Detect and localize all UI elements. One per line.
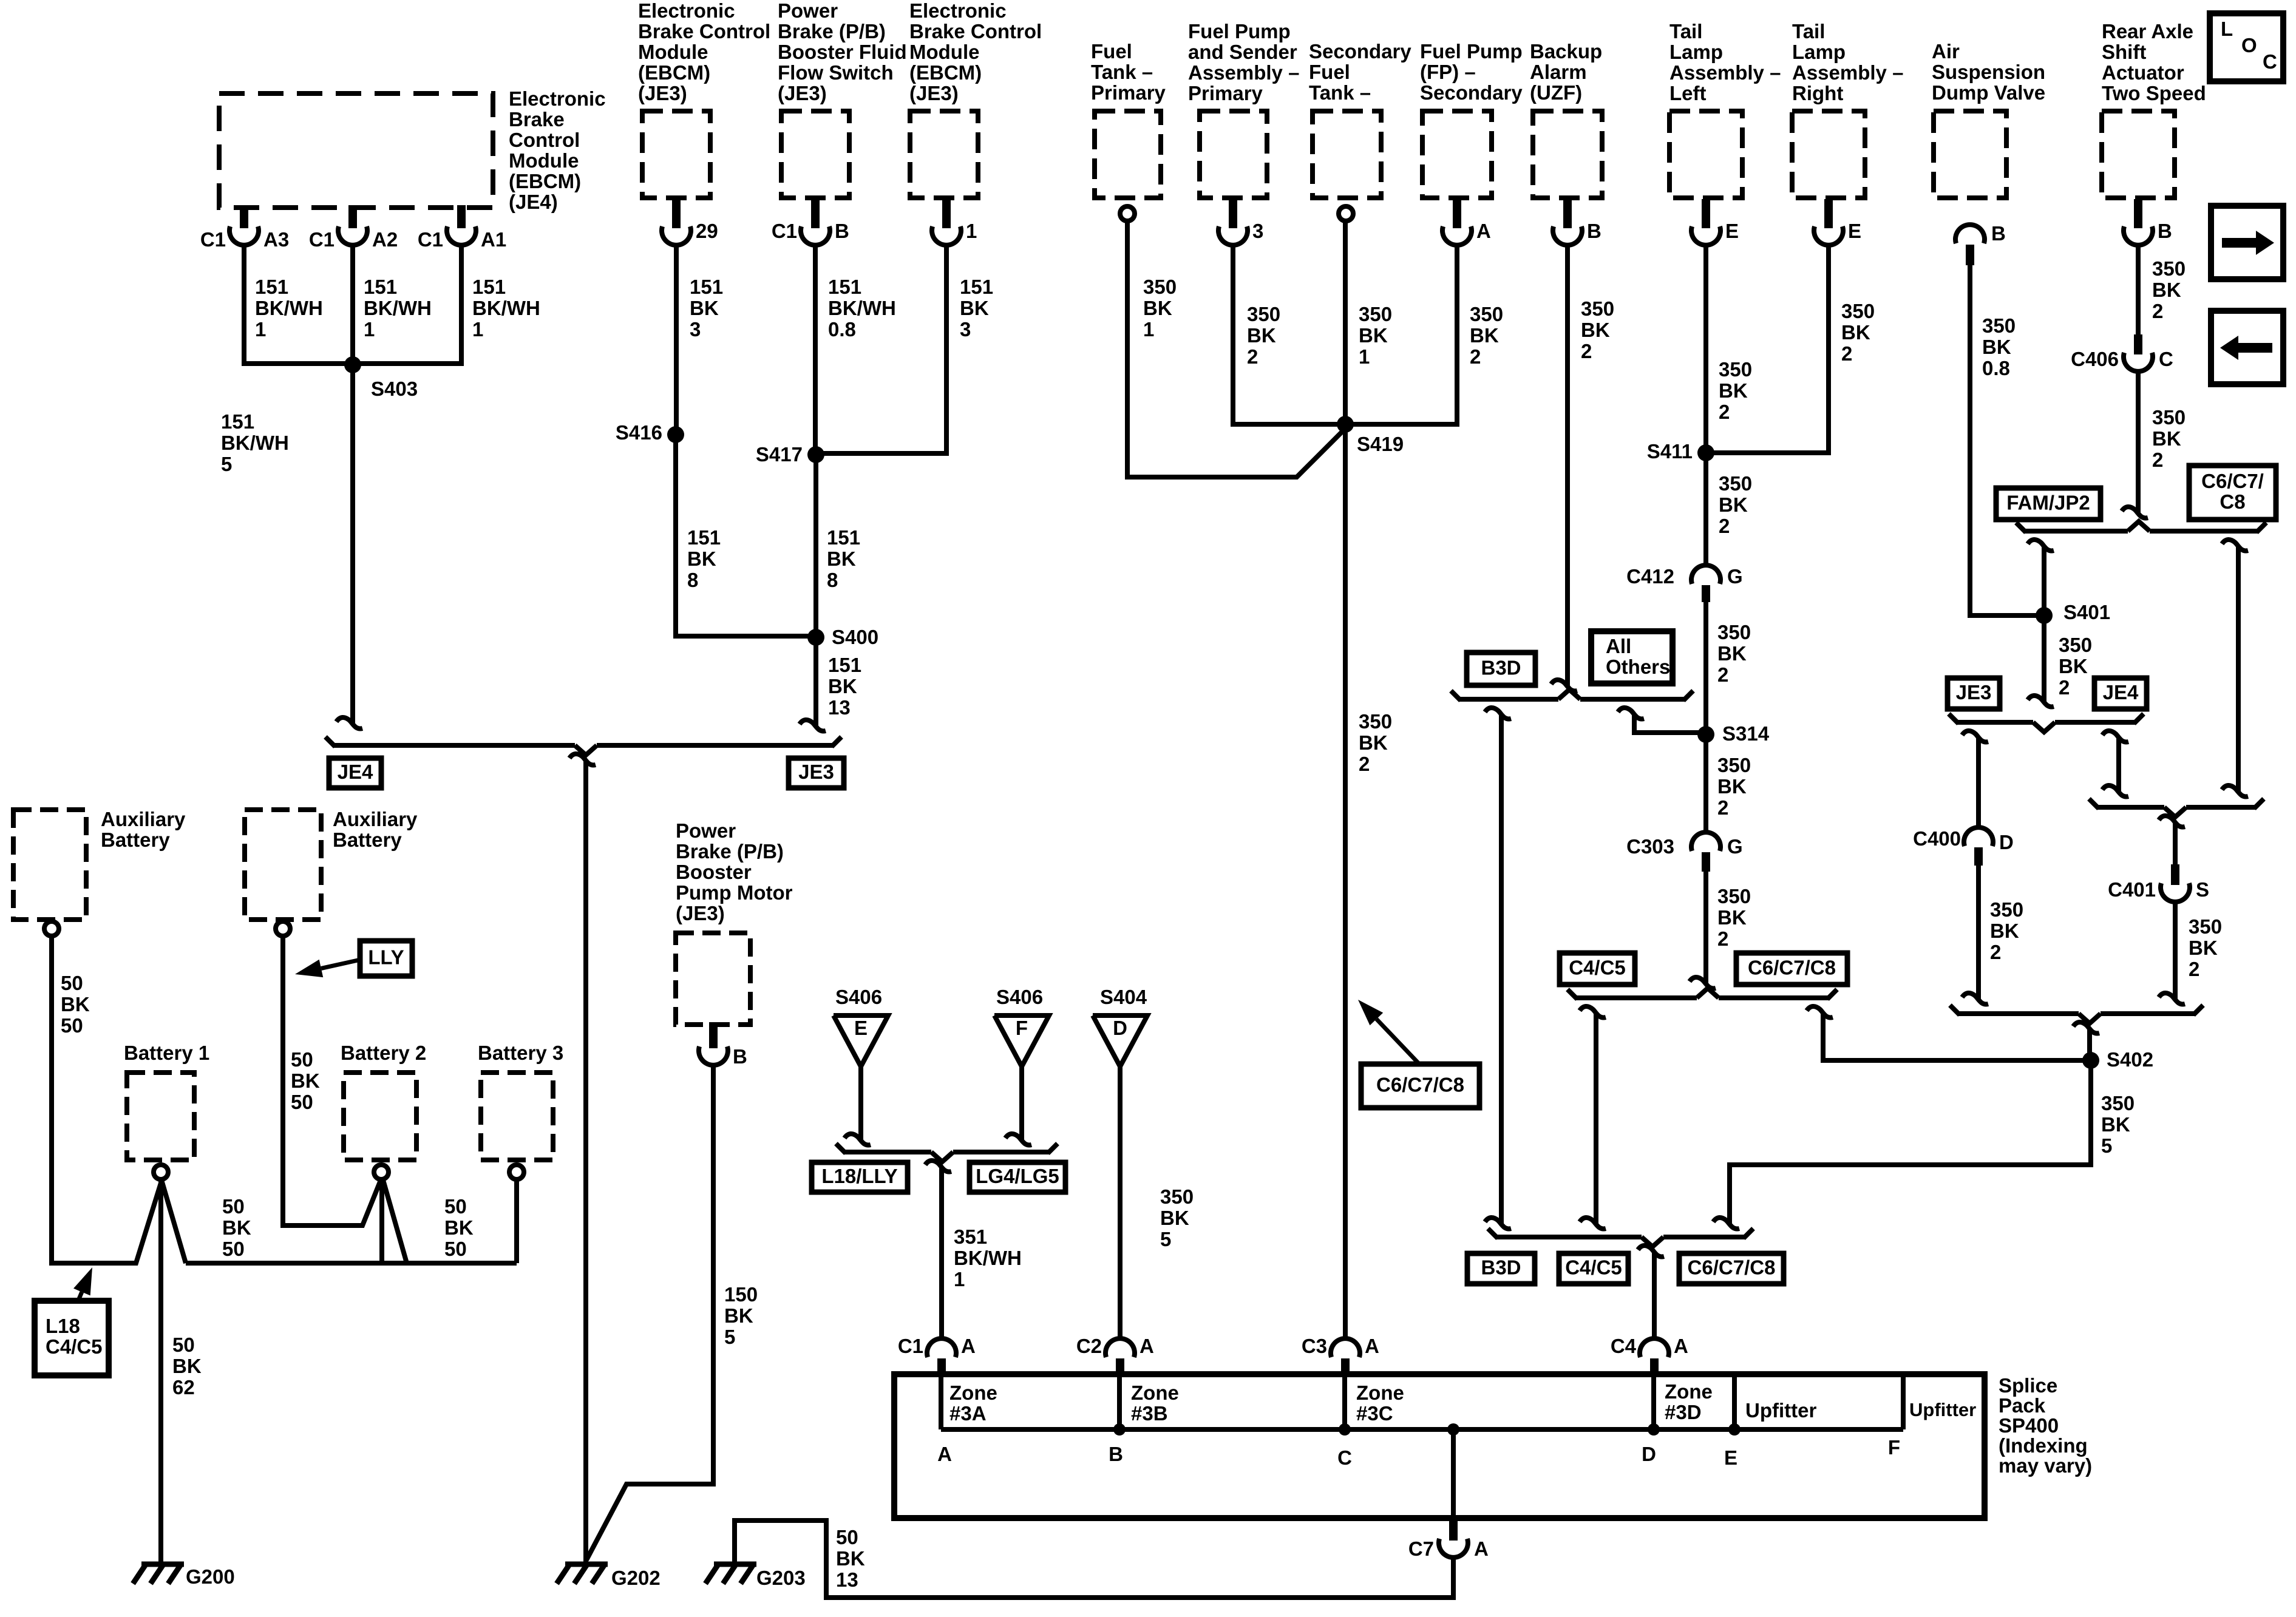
svg-text:L18/LLY: L18/LLY: [821, 1165, 897, 1187]
wire B3D bus to lower bus: [1485, 708, 1511, 719]
svg-text:350: 350: [1717, 754, 1751, 776]
wire S417 to S400: [813, 455, 818, 637]
svg-text:BK: BK: [1717, 775, 1747, 798]
svg-text:C: C: [2263, 50, 2277, 73]
svg-text:#3A: #3A: [949, 1402, 987, 1425]
svg-text:350: 350: [2189, 915, 2222, 938]
svg-text:350: 350: [1990, 898, 2023, 921]
C6/C7/C8 callout box: [1361, 1064, 1479, 1108]
svg-text:BK: BK: [724, 1304, 753, 1327]
svg-text:B: B: [1991, 222, 2006, 245]
wire C1/A1 to S403: [356, 244, 461, 364]
svg-text:BK: BK: [687, 547, 716, 570]
svg-text:350: 350: [1143, 276, 1177, 298]
Splice Pack SP400 outer box: [894, 1374, 1985, 1518]
svg-text:Brake (P/B): Brake (P/B): [778, 20, 886, 42]
wire Rear Axle to C406: [2136, 244, 2141, 334]
wire Battery 1 to G200: [158, 1180, 163, 1564]
svg-text:350: 350: [1470, 303, 1503, 325]
svg-text:BK: BK: [1359, 324, 1388, 347]
wire S402 to bottom bus: [1730, 1060, 2091, 1224]
svg-text:C: C: [1337, 1446, 1352, 1469]
svg-text:Air: Air: [1932, 40, 1960, 63]
svg-text:350: 350: [1359, 710, 1392, 733]
wire C303 to C4C5 bus: [1703, 872, 1708, 983]
svg-text:50: 50: [444, 1195, 467, 1218]
svg-text:350: 350: [1719, 358, 1752, 381]
Tail Lamp Assembly Left box: [1669, 111, 1742, 198]
svg-text:(EBCM): (EBCM): [638, 61, 710, 84]
splice S416: [667, 426, 684, 443]
svg-text:(JE3): (JE3): [778, 82, 827, 104]
svg-text:5: 5: [1160, 1228, 1171, 1250]
svg-text:29: 29: [696, 220, 718, 242]
svg-text:Assembly –: Assembly –: [1188, 61, 1299, 84]
Battery 3 box: [481, 1073, 553, 1160]
svg-text:may vary): may vary): [1999, 1454, 2092, 1477]
svg-text:62: 62: [172, 1376, 195, 1398]
svg-text:BK: BK: [836, 1547, 865, 1570]
svg-text:Left: Left: [1669, 82, 1707, 104]
svg-text:Secondary: Secondary: [1309, 40, 1411, 63]
wire C1/A2 to S403: [350, 244, 355, 365]
svg-text:BK: BK: [2152, 279, 2181, 301]
Battery 1 terminal: [154, 1165, 168, 1179]
connector C7 pin A: [1449, 1518, 1458, 1541]
svg-text:Tank –: Tank –: [1309, 81, 1371, 104]
svg-text:BK: BK: [2101, 1113, 2130, 1136]
svg-text:C1: C1: [418, 228, 443, 251]
Battery 2 terminal: [374, 1165, 389, 1179]
svg-text:A1: A1: [481, 228, 506, 251]
SP400 node E: [1728, 1423, 1741, 1436]
svg-text:C4/C5: C4/C5: [1565, 1256, 1622, 1279]
svg-text:(EBCM): (EBCM): [909, 61, 982, 84]
Fuel Tank Primary box: [1095, 111, 1161, 198]
svg-text:350: 350: [1359, 303, 1392, 325]
svg-text:BK: BK: [1982, 336, 2011, 358]
svg-text:8: 8: [827, 569, 838, 591]
svg-text:2: 2: [1717, 796, 1728, 819]
svg-text:350: 350: [1841, 300, 1875, 322]
svg-text:C1: C1: [898, 1335, 923, 1357]
svg-text:Alarm: Alarm: [1530, 61, 1587, 83]
EBCM JE3 connector pin 29: [672, 195, 681, 228]
svg-text:C: C: [2159, 348, 2173, 370]
svg-text:5: 5: [724, 1326, 735, 1348]
svg-text:JE3: JE3: [1956, 681, 1992, 703]
connector C3 pin A: [1331, 1338, 1360, 1357]
svg-text:Battery 1: Battery 1: [124, 1042, 209, 1064]
svg-text:Assembly –: Assembly –: [1792, 61, 1903, 84]
wire Pump Motor to G202: [586, 1065, 713, 1560]
wire FP Secondary to S419: [1345, 244, 1457, 424]
LOC legend box: [2210, 13, 2283, 81]
svg-text:151: 151: [255, 276, 288, 298]
svg-text:C400: C400: [1913, 827, 1961, 850]
JE3 bus label: [789, 758, 844, 788]
svg-text:Rear Axle: Rear Axle: [2102, 20, 2193, 42]
svg-text:F: F: [1888, 1436, 1900, 1459]
wire FAM bus to S401: [2028, 540, 2054, 551]
svg-text:5: 5: [221, 453, 232, 475]
JE3 label (right): [1948, 678, 2000, 709]
svg-text:S411: S411: [1647, 440, 1693, 463]
svg-text:BK: BK: [1990, 920, 2019, 942]
svg-text:C8: C8: [2220, 490, 2245, 513]
svg-text:JE4: JE4: [338, 761, 373, 783]
svg-text:BK: BK: [1717, 642, 1747, 665]
svg-text:Tail: Tail: [1792, 20, 1825, 42]
svg-text:Electronic: Electronic: [909, 0, 1007, 22]
svg-text:S400: S400: [832, 626, 878, 648]
ground G200: [141, 1562, 184, 1567]
svg-text:Others: Others: [1606, 656, 1670, 678]
svg-text:0.8: 0.8: [828, 318, 856, 341]
svg-text:1: 1: [472, 318, 483, 341]
connector C401 pin S: [2171, 864, 2179, 885]
Battery 2 box: [344, 1073, 416, 1160]
svg-text:#3C: #3C: [1356, 1402, 1393, 1425]
svg-text:350: 350: [2152, 257, 2186, 280]
svg-text:BK: BK: [2152, 427, 2181, 450]
svg-text:50: 50: [172, 1334, 195, 1356]
Backup Alarm connector pin B: [1563, 195, 1572, 228]
wire C406 to FAM bus: [2136, 370, 2141, 513]
Tail Lamp Left connector pin E: [1702, 199, 1710, 228]
svg-text:A2: A2: [372, 228, 398, 251]
splice S402: [2082, 1052, 2099, 1069]
svg-text:13: 13: [836, 1568, 858, 1591]
svg-text:JE4: JE4: [2103, 681, 2139, 703]
wire Backup Alarm to B3D bus: [1565, 244, 1570, 686]
svg-text:Upfitter: Upfitter: [1745, 1399, 1816, 1422]
svg-text:BK: BK: [827, 547, 856, 570]
svg-text:G203: G203: [756, 1567, 806, 1589]
svg-text:C1: C1: [772, 220, 797, 242]
wire C1/B to S417: [813, 244, 818, 455]
svg-text:L: L: [2221, 18, 2233, 40]
svg-text:Control: Control: [509, 129, 580, 151]
C6/C7/C8 label (mid): [1736, 953, 1847, 985]
svg-text:L18: L18: [46, 1315, 80, 1337]
svg-text:Module: Module: [909, 41, 979, 63]
svg-text:#3D: #3D: [1665, 1401, 1702, 1423]
wire S411 to C412: [1703, 453, 1708, 566]
svg-text:350: 350: [1581, 297, 1614, 320]
svg-text:151: 151: [221, 410, 254, 433]
wire S400 to JE3 bus: [813, 637, 818, 726]
wire S416 to S400: [676, 435, 816, 636]
B3D label (bottom): [1467, 1253, 1535, 1284]
bottom right option bus: [1958, 1011, 2079, 1016]
Backup Alarm (UZF) box: [1533, 111, 1602, 198]
svg-text:A: A: [1365, 1335, 1379, 1357]
left arrow box: [2211, 311, 2283, 384]
svg-text:350: 350: [2059, 634, 2092, 656]
wire C1/A3 to S403: [244, 244, 349, 364]
svg-text:Zone: Zone: [949, 1381, 997, 1404]
EBCM (JE3) second box: [910, 111, 978, 198]
wire C400 to bottom right bus: [1976, 866, 1981, 999]
svg-text:1: 1: [364, 318, 375, 341]
svg-text:Auxiliary: Auxiliary: [101, 808, 186, 830]
splice S411: [1697, 444, 1714, 461]
svg-text:B: B: [1587, 220, 1601, 242]
EBCM JE4 connector C1 pin A2: [348, 205, 357, 228]
svg-text:50: 50: [61, 972, 83, 994]
svg-text:D: D: [1642, 1443, 1656, 1465]
svg-text:Auxiliary: Auxiliary: [333, 808, 418, 830]
svg-text:S406: S406: [835, 986, 882, 1008]
Battery 2 legs: [379, 1180, 384, 1263]
SP400 divider D: [1651, 1374, 1656, 1429]
svg-text:A: A: [937, 1443, 952, 1465]
Battery 3 leg: [514, 1180, 519, 1263]
svg-text:BK/WH: BK/WH: [221, 432, 289, 454]
svg-text:B: B: [733, 1045, 747, 1068]
C6/C7/C8 label (top right): [2189, 466, 2276, 520]
svg-text:LLY: LLY: [368, 946, 404, 969]
svg-text:1: 1: [954, 1268, 965, 1290]
Auxiliary Battery 2 box: [245, 810, 321, 920]
wire JE bus to G202: [569, 754, 596, 765]
Fuel Pump and Sender Assembly Primary box: [1200, 111, 1267, 198]
svg-text:F: F: [1016, 1017, 1028, 1039]
P/B switch connector C1 pin B: [811, 195, 820, 228]
svg-text:Battery: Battery: [101, 829, 170, 851]
Power Brake Booster Fluid Flow Switch box: [781, 111, 849, 198]
svg-text:C6/C7/C8: C6/C7/C8: [1376, 1074, 1464, 1096]
svg-text:Primary: Primary: [1091, 81, 1166, 104]
Fuel Tank Primary ring terminal: [1120, 206, 1135, 221]
svg-text:C1: C1: [309, 228, 335, 251]
svg-text:B: B: [835, 220, 849, 242]
SP400 divider E: [1732, 1374, 1737, 1429]
svg-text:Assembly –: Assembly –: [1669, 61, 1781, 84]
wire C401 bus to C401: [2159, 816, 2185, 827]
svg-text:G200: G200: [186, 1565, 235, 1588]
svg-text:B3D: B3D: [1481, 1256, 1521, 1279]
SP400 divider A: [939, 1374, 943, 1429]
ground G202: [565, 1562, 608, 1567]
svg-text:Pack: Pack: [1999, 1394, 2046, 1417]
svg-text:Electronic: Electronic: [509, 87, 606, 110]
Tail Lamp Right connector pin E: [1824, 199, 1833, 228]
svg-text:S401: S401: [2063, 601, 2110, 623]
svg-text:Zone: Zone: [1356, 1381, 1404, 1404]
svg-text:Flow Switch: Flow Switch: [778, 61, 894, 84]
svg-text:C4: C4: [1611, 1335, 1637, 1357]
svg-text:350: 350: [1160, 1185, 1194, 1208]
svg-text:Lamp: Lamp: [1669, 41, 1723, 63]
Auxiliary Battery 1 box: [13, 810, 86, 920]
svg-text:and Sender: and Sender: [1188, 41, 1297, 63]
svg-text:Brake: Brake: [509, 108, 565, 131]
svg-text:A: A: [1674, 1335, 1688, 1357]
splice S400: [807, 629, 824, 646]
wire Secondary Fuel Tank down to C3: [1343, 221, 1348, 1338]
EBCM (JE4) module box: [219, 93, 493, 208]
svg-text:Zone: Zone: [1131, 1381, 1179, 1404]
svg-text:C406: C406: [2071, 348, 2119, 370]
wire Battery 1 right leg: [161, 1180, 186, 1263]
svg-text:Secondary: Secondary: [1420, 81, 1523, 104]
svg-text:BK: BK: [291, 1070, 320, 1092]
svg-text:Electronic: Electronic: [638, 0, 735, 22]
svg-text:C2: C2: [1076, 1335, 1102, 1357]
LG4/LG5 label: [970, 1162, 1065, 1192]
svg-text:BK/WH: BK/WH: [828, 297, 896, 319]
svg-text:BK: BK: [1581, 319, 1610, 341]
Battery 3 terminal: [509, 1165, 524, 1179]
svg-text:2: 2: [1247, 345, 1258, 368]
wire S404 to C2: [1118, 1066, 1123, 1338]
svg-text:D: D: [1113, 1017, 1127, 1039]
svg-text:All: All: [1606, 635, 1631, 657]
L18/LLY label: [812, 1162, 908, 1192]
svg-text:8: 8: [687, 569, 698, 591]
svg-text:SP400: SP400: [1999, 1414, 2059, 1437]
svg-text:G202: G202: [611, 1567, 661, 1589]
svg-text:Shift: Shift: [2102, 41, 2146, 63]
svg-text:LG4/LG5: LG4/LG5: [976, 1165, 1059, 1187]
splice S417: [807, 446, 824, 463]
LLY arrow: [321, 960, 361, 968]
Secondary Fuel Tank ring terminal: [1339, 206, 1353, 221]
svg-text:151: 151: [828, 654, 861, 676]
connector C406 pin C: [2134, 334, 2142, 354]
wire S406 E to bus: [858, 1066, 863, 1140]
svg-text:Module: Module: [509, 149, 579, 172]
svg-text:151: 151: [827, 526, 860, 549]
connector C4 pin A: [1640, 1338, 1669, 1357]
svg-text:2: 2: [1719, 401, 1730, 423]
svg-text:E: E: [1724, 1446, 1737, 1469]
wire bus to C1: [925, 1161, 951, 1172]
svg-text:S403: S403: [371, 378, 418, 400]
svg-text:BK: BK: [444, 1216, 474, 1239]
svg-text:Zone: Zone: [1665, 1380, 1713, 1403]
svg-text:151: 151: [687, 526, 721, 549]
JE4 label (right): [2094, 678, 2147, 709]
Power Brake Booster Pump Motor box: [676, 933, 750, 1025]
svg-text:Fuel Pump: Fuel Pump: [1188, 20, 1291, 42]
svg-text:#3B: #3B: [1131, 1402, 1168, 1425]
svg-text:C412: C412: [1626, 565, 1674, 588]
svg-text:Brake Control: Brake Control: [638, 20, 770, 42]
svg-text:Suspension: Suspension: [1932, 61, 2045, 83]
EBCM JE4 connector C1 pin A1: [457, 205, 466, 228]
svg-text:0.8: 0.8: [1982, 357, 2010, 379]
svg-text:C3: C3: [1302, 1335, 1327, 1357]
SP400 node C7 tap: [1447, 1423, 1459, 1436]
svg-text:BK: BK: [960, 297, 989, 319]
connector C2 pin A: [1106, 1338, 1135, 1357]
C401 option bus: [2097, 805, 2164, 810]
svg-text:BK: BK: [2189, 937, 2218, 959]
svg-text:2: 2: [2152, 300, 2163, 322]
wire JE bus to C401 bus: [2102, 731, 2128, 742]
Battery 1 box: [127, 1073, 194, 1160]
svg-text:(JE3): (JE3): [638, 82, 687, 104]
C6/C7/C8 label (bottom): [1679, 1253, 1784, 1284]
svg-text:50: 50: [444, 1238, 467, 1260]
svg-text:Two Speed: Two Speed: [2102, 82, 2206, 104]
svg-text:Brake Control: Brake Control: [909, 20, 1042, 42]
svg-text:BK: BK: [222, 1216, 251, 1239]
svg-text:(JE4): (JE4): [509, 191, 558, 213]
svg-text:Fuel: Fuel: [1091, 40, 1132, 63]
svg-text:Upfitter: Upfitter: [1909, 1399, 1976, 1420]
FAM/JP2 label: [1996, 488, 2101, 520]
svg-text:151: 151: [364, 276, 397, 298]
svg-text:BK: BK: [1841, 321, 1870, 344]
svg-text:Backup: Backup: [1530, 40, 1602, 63]
splice S401: [2036, 607, 2053, 624]
svg-text:S406: S406: [996, 986, 1043, 1008]
svg-text:BK: BK: [1719, 379, 1748, 402]
svg-text:Power: Power: [778, 0, 838, 22]
svg-text:S: S: [2196, 878, 2209, 901]
svg-text:3: 3: [690, 318, 701, 341]
Auxiliary Battery 1 terminal: [44, 921, 59, 936]
svg-text:S402: S402: [2107, 1048, 2153, 1071]
wire bus to S402: [2073, 1022, 2099, 1034]
ground G203: [714, 1562, 756, 1567]
svg-text:50: 50: [222, 1238, 245, 1260]
svg-text:Fuel Pump: Fuel Pump: [1420, 40, 1523, 63]
svg-text:351: 351: [954, 1225, 987, 1248]
connector C412 pin G: [1691, 565, 1720, 584]
SP400 node B: [1113, 1423, 1126, 1436]
svg-text:50: 50: [291, 1091, 313, 1113]
svg-text:350: 350: [1247, 303, 1280, 325]
svg-text:350: 350: [1717, 885, 1751, 907]
svg-text:50: 50: [291, 1048, 313, 1071]
JE4 bus label: [329, 758, 381, 788]
wire bottom bus to C4: [1638, 1246, 1664, 1257]
svg-text:350: 350: [1982, 314, 2016, 337]
All Others label: [1591, 631, 1673, 683]
svg-text:(FP) –: (FP) –: [1420, 61, 1476, 83]
B3D option bus: [1459, 697, 1558, 702]
Auxiliary Battery 2 terminal: [276, 921, 290, 936]
svg-text:Brake (P/B): Brake (P/B): [676, 840, 784, 863]
svg-text:Power: Power: [676, 819, 736, 842]
svg-text:151: 151: [960, 276, 993, 298]
svg-text:1: 1: [966, 220, 977, 242]
svg-text:(UZF): (UZF): [1530, 81, 1582, 104]
svg-text:Tail: Tail: [1669, 20, 1702, 42]
svg-text:Battery 3: Battery 3: [478, 1042, 563, 1064]
svg-text:(Indexing: (Indexing: [1999, 1434, 2088, 1457]
svg-text:151: 151: [472, 276, 506, 298]
B3D/C4C5/C6C7C8 bottom bus: [1496, 1235, 1642, 1239]
SP400 node D: [1648, 1423, 1660, 1436]
svg-text:(JE3): (JE3): [909, 82, 959, 104]
wire C401 to bottom right bus: [2173, 902, 2178, 999]
svg-text:Pump Motor: Pump Motor: [676, 881, 793, 904]
svg-text:Splice: Splice: [1999, 1374, 2057, 1397]
wire Tail Lamp Left to S411: [1703, 244, 1708, 453]
FAM/JP2 option bus: [2025, 529, 2128, 534]
svg-text:BK/WH: BK/WH: [364, 297, 432, 319]
svg-text:S419: S419: [1357, 433, 1404, 455]
wire C7 tap down: [1451, 1429, 1456, 1518]
svg-text:Primary: Primary: [1188, 82, 1263, 104]
wire Air Suspension to S401: [1970, 265, 2044, 615]
